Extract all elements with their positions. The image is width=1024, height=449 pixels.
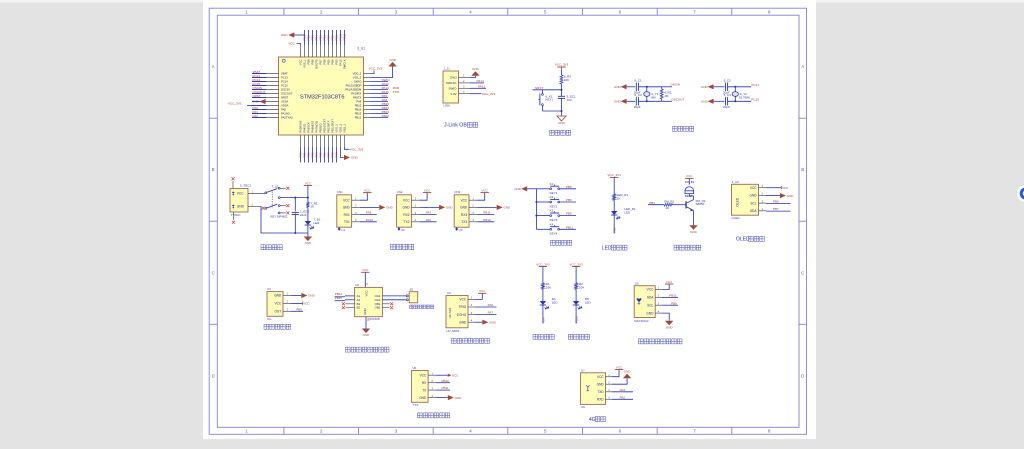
caption voice output module	[418, 413, 450, 418]
CN3 bottom label	[455, 227, 458, 231]
net label VCC of speed sensor	[291, 302, 303, 304]
capacitor C2 20pF	[725, 83, 727, 91]
ground symbol of 4G module (up arrow)	[612, 378, 627, 384]
svg-text:10K: 10K	[564, 78, 569, 82]
svg-text:LED: LED	[552, 301, 559, 305]
svg-text:4_U2: 4_U2	[732, 180, 740, 184]
node junction key rail row K2	[535, 201, 537, 203]
heart-rate pin stubs with numbers	[655, 290, 662, 314]
motor connector J2 contacts	[406, 295, 408, 297]
4G module U7 body	[581, 373, 606, 405]
capacitor C3 20pF	[635, 97, 637, 105]
svg-text:ECHO: ECHO	[457, 313, 467, 317]
switch S1 pole 1 lower throw contact	[278, 197, 280, 199]
U1 top wires rising to labels	[305, 30, 345, 45]
resistor R1 10K of lamp circuit	[541, 283, 544, 290]
node junction crystal Y2 top	[734, 86, 736, 88]
svg-text:KEY1: KEY1	[546, 98, 554, 102]
svg-text:GND: GND	[308, 294, 316, 298]
vertical rail of key circuit	[535, 189, 537, 230]
transistor Q1 S8050 NPN	[685, 201, 687, 208]
wire C1 to crystal node	[638, 86, 661, 88]
wire button K4 to net label	[560, 228, 576, 230]
svg-text:10K: 10K	[546, 286, 551, 290]
net label PB10 on voice RX wire	[436, 382, 450, 384]
wire GND of heart-rate module	[662, 313, 669, 321]
svg-text:VCC: VCC	[305, 181, 312, 185]
ground symbol of CN3	[477, 206, 497, 208]
svg-text:PA13: PA13	[478, 85, 485, 89]
svg-text:GND: GND	[597, 382, 605, 386]
svg-text:1M: 1M	[664, 94, 669, 98]
ground symbol of reset circuit (hollow)	[557, 116, 566, 121]
net label PA9 on CN1 RX wire	[360, 214, 377, 216]
LED D4 of lamp circuit	[540, 301, 546, 305]
net label PA13 on J1 SWIO wire	[470, 87, 486, 89]
net label VCC_3V3 on J1 3.3V wire	[470, 93, 482, 95]
svg-text:GND: GND	[252, 100, 260, 104]
svg-text:5_C4: 5_C4	[724, 93, 732, 97]
power port VCC of CN2	[420, 193, 428, 201]
net label PB11 on voice TX wire	[436, 389, 450, 391]
svg-text:20pF: 20pF	[634, 105, 641, 109]
wire GND to capacitor C1	[627, 86, 636, 88]
svg-text:GND: GND	[459, 320, 467, 324]
svg-text:VSS_1: VSS_1	[302, 59, 306, 68]
svg-text:4G: 4G	[589, 417, 596, 423]
svg-text:OLED: OLED	[732, 216, 741, 220]
motor driver OA1 wire to connector	[382, 295, 406, 297]
svg-text:GND: GND	[701, 85, 709, 89]
svg-text:VCC_3V3: VCC_3V3	[608, 173, 622, 177]
svg-text:SDA: SDA	[647, 296, 654, 300]
svg-text:PA2TXA0: PA2TXA0	[281, 116, 293, 120]
wire C3 to crystal node	[638, 100, 661, 102]
wire LED D5 down to net label	[575, 305, 577, 324]
svg-text:VCC: VCC	[420, 373, 427, 377]
svg-text:TX3: TX3	[461, 220, 467, 224]
svg-text:VCC: VCC	[303, 302, 310, 306]
no-connect crosses on OB1 OB2 pins	[382, 303, 389, 305]
node junction at NRST net	[561, 89, 563, 91]
svg-text:PA10RX: PA10RX	[351, 92, 361, 96]
LED D5 of lamp circuit	[573, 301, 579, 305]
net label PA10 on CN1 TX wire	[360, 221, 377, 223]
ground symbol of CN2	[420, 206, 440, 208]
ground symbol of buzzer circuit	[689, 225, 697, 230]
svg-text:PB11: PB11	[669, 294, 676, 298]
caption green lamp circuit	[533, 334, 554, 339]
wire PB1 to resistor FM_R1	[648, 204, 664, 206]
svg-text:GND: GND	[472, 67, 480, 71]
svg-text:CN3: CN3	[454, 190, 460, 194]
svg-text:HC-S04: HC-S04	[448, 307, 452, 318]
svg-text:GND: GND	[489, 320, 497, 324]
svg-text:VSSA: VSSA	[281, 100, 288, 104]
CN1 bottom label	[338, 227, 341, 231]
wire rail to button K1	[536, 188, 549, 190]
svg-text:VCC: VCC	[237, 192, 244, 196]
caption buzzer circuit	[674, 245, 701, 250]
svg-text:K3: K3	[550, 209, 554, 213]
wire R2 to LED D5	[575, 289, 577, 301]
switch S1 pole 2 arm	[267, 204, 278, 208]
svg-text:A: A	[801, 64, 804, 69]
wire VCC bar down the rail	[307, 186, 309, 202]
svg-text:PB0: PB0	[296, 307, 302, 311]
wire VCC to U2 motor driver	[364, 272, 366, 287]
svg-text:PB12: PB12	[382, 114, 390, 118]
column ticks and numbers (top and bottom rulers)	[284, 8, 732, 434]
svg-text:BEEP: BEEP	[685, 194, 693, 198]
svg-text:PA3RXA0: PA3RXA0	[298, 120, 302, 132]
wire motor driver GND down	[365, 317, 367, 329]
net label PA3 on 4G TXD wire	[612, 391, 633, 393]
svg-text:D: D	[212, 373, 215, 378]
svg-text:PB3: PB3	[613, 227, 617, 233]
svg-text:GND: GND	[701, 100, 709, 104]
ground symbol at U1 VSSA pin	[260, 99, 266, 104]
svg-text:GND: GND	[274, 294, 282, 298]
svg-text:GND: GND	[343, 206, 351, 210]
caption key circuit	[551, 240, 572, 245]
svg-text:VCC: VCC	[479, 289, 486, 293]
caption DC motor driver module	[346, 347, 390, 352]
push button K3 KEY3	[550, 215, 552, 217]
svg-text:CG: CG	[267, 317, 272, 321]
capacitor EC1 104	[558, 95, 565, 97]
ground symbol of heart-rate module	[665, 321, 673, 326]
svg-text:MX1508: MX1508	[369, 317, 381, 321]
svg-text:GND: GND	[363, 308, 367, 314]
svg-text:VCC: VCC	[616, 365, 623, 369]
svg-text:PB1SBTX: PB1SBTX	[326, 120, 330, 132]
ground symbol at J1 GND pin	[470, 76, 476, 78]
svg-text:VCC: VCC	[686, 174, 693, 178]
caption ultrasonic ranging module	[452, 338, 490, 343]
LED D1 power indicator	[305, 221, 311, 225]
power port VCC of 4G module	[612, 370, 619, 377]
switch S1 linkage dashed line	[271, 192, 273, 208]
svg-text:VCC: VCC	[647, 288, 654, 292]
power net label VCC_3V3 at U1 bottom VDD pin	[345, 147, 350, 149]
svg-text:VCC: VCC	[782, 186, 789, 190]
svg-text:GND: GND	[386, 206, 394, 210]
svg-text:GND: GND	[237, 205, 245, 209]
U1 left pin stubs	[252, 74, 279, 118]
svg-text:PB10SCKT: PB10SCKT	[322, 118, 326, 132]
svg-text:VCC: VCC	[597, 375, 604, 379]
wire button K3 to net label	[560, 215, 576, 217]
ground symbol of ultrasonic	[475, 321, 482, 323]
net label PB15 on motor A2 wire	[345, 299, 355, 301]
svg-text:VBAT: VBAT	[281, 72, 288, 76]
wire VCC_3V3 to resistor LED_R1	[613, 177, 615, 194]
CN2 pin stubs with numbers	[411, 200, 419, 222]
svg-text:VCC: VCC	[364, 188, 371, 192]
svg-text:U2: U2	[401, 228, 405, 232]
svg-text:VSS_2: VSS_2	[353, 76, 362, 80]
wire VCC_3V3 down to resistor R2	[575, 267, 577, 283]
svg-text:PB11: PB11	[566, 225, 573, 229]
ground symbol of voice module	[436, 397, 448, 399]
wire C2 to crystal Y2 node	[728, 86, 751, 88]
svg-text:CN1: CN1	[337, 190, 343, 194]
net label OSCOUT wire	[662, 100, 672, 102]
net label PA3 on CN2 RX wire	[420, 214, 437, 216]
svg-text:PB6: PB6	[322, 59, 326, 65]
svg-text:GND: GND	[419, 396, 427, 400]
wire NRST node down through capacitor EC1	[561, 90, 563, 96]
no-connect cross above TBC1	[232, 181, 234, 189]
node junction at VCC rail top	[307, 197, 309, 199]
svg-text:S8050: S8050	[696, 202, 705, 206]
svg-text:GND: GND	[281, 33, 289, 37]
svg-text:J-Link OB: J-Link OB	[444, 123, 467, 129]
push button K1 KEY1	[550, 188, 552, 190]
wire LED_R1 to LED_D1	[613, 200, 615, 211]
wire button K1 to bottom rail	[542, 106, 544, 112]
CN3 pin stubs with numbers	[469, 200, 477, 222]
svg-text:B2: B2	[357, 306, 361, 310]
svg-text:PA7: PA7	[488, 311, 494, 315]
svg-text:C: C	[212, 270, 215, 275]
svg-text:PA14: PA14	[477, 79, 484, 83]
svg-text:VCC_3V3: VCC_3V3	[536, 262, 550, 266]
resistor R2 1M across crystal	[661, 87, 663, 89]
crystal Y2 32.768K	[734, 87, 736, 102]
net label PA2 on CN2 TX wire	[420, 221, 437, 223]
node junction at capacitor EC3 branch	[294, 197, 296, 199]
svg-text:D: D	[801, 373, 804, 378]
U1 left wires under labels	[252, 74, 266, 118]
svg-text:VCC: VCC	[362, 268, 369, 272]
svg-text:PA3: PA3	[620, 388, 626, 392]
svg-text:PA3: PA3	[426, 211, 432, 215]
switch S1 pole 1 arm	[266, 189, 277, 193]
wire FM_R1 to Q1 base	[673, 204, 686, 206]
svg-text:VCC: VCC	[364, 290, 368, 296]
svg-text:PB1: PB1	[649, 201, 655, 205]
speed sensor pin stubs with numbers	[283, 296, 291, 312]
svg-text:SDA: SDA	[750, 209, 757, 213]
wire GND to capacitor C4	[714, 100, 725, 102]
svg-text:VCC_3V3: VCC_3V3	[369, 66, 383, 70]
svg-text:K2: K2	[550, 195, 554, 199]
U1 pin-1 indicator circle	[282, 59, 285, 62]
svg-text:22uF: 22uF	[300, 213, 307, 217]
ground symbol of CN1	[360, 206, 380, 208]
wire Q1 emitter to ground	[693, 211, 695, 226]
svg-text:5_TBC1: 5_TBC1	[240, 184, 251, 188]
power port VCC of CN1	[360, 193, 368, 201]
svg-text:VDD_1: VDD_1	[342, 123, 346, 132]
svg-text:U3: U3	[267, 287, 271, 291]
microcontroller U1 STM32F103C8T6 body	[279, 57, 364, 135]
svg-text:20pF: 20pF	[723, 105, 730, 109]
svg-text:GND: GND	[351, 156, 359, 160]
svg-text:NRST: NRST	[535, 86, 543, 90]
net label PA14 on J1 SWCLK wire	[470, 82, 484, 84]
svg-text:PB12: PB12	[575, 316, 579, 323]
svg-text:VCC: VCC	[343, 198, 350, 202]
svg-text:1K: 1K	[310, 205, 314, 209]
svg-text:VDDA: VDDA	[281, 104, 289, 108]
svg-text:PB12: PB12	[355, 116, 362, 120]
net label PA2 on 4G RXD wire	[612, 398, 633, 400]
svg-text:VCC: VCC	[424, 188, 431, 192]
svg-text:U4: U4	[447, 291, 451, 295]
CN2 bottom label	[398, 227, 401, 231]
net label VCC with arrow on voice pin 1	[436, 374, 448, 376]
svg-text:LED: LED	[602, 245, 612, 251]
svg-text:PC15: PC15	[281, 84, 288, 88]
svg-text:PA4SO: PA4SO	[302, 124, 306, 133]
ground symbol at U1 VSS_2 pin	[371, 67, 393, 78]
svg-text:VCC_3V3: VCC_3V3	[350, 147, 364, 151]
wire VCC to buzzer top	[688, 178, 690, 184]
resistor FM_R1 1K	[664, 203, 672, 206]
svg-text:SWIO: SWIO	[449, 86, 458, 90]
resistor R1 of power LED	[306, 202, 309, 208]
svg-text:GND: GND	[363, 333, 371, 337]
ultrasonic module U4 HC-SR04 body	[446, 296, 468, 328]
svg-text:GND: GND	[455, 396, 463, 400]
svg-text:104: 104	[567, 98, 572, 102]
net label PB14 on motor A1 wire	[345, 295, 355, 297]
resistor LED_R1 1K	[613, 194, 616, 200]
wire rail to button K2	[536, 201, 549, 203]
svg-text:GND: GND	[614, 100, 622, 104]
svg-text:A: A	[212, 64, 215, 69]
svg-text:PA8: PA8	[356, 100, 361, 104]
svg-text:MAX30102: MAX30102	[634, 319, 649, 323]
svg-text:PB6: PB6	[566, 198, 572, 202]
svg-text:VDD_2: VDD_2	[353, 72, 362, 76]
net label PA6 on TRIG wire	[475, 306, 497, 308]
LED_D1 indicator LED	[611, 211, 617, 215]
switch S1 pole 2 common contact with no-connect cross	[262, 207, 265, 210]
svg-text:PA2: PA2	[620, 395, 626, 399]
svg-text:GND: GND	[389, 58, 397, 62]
caption speed sensor	[264, 324, 291, 329]
node junction crystal Y1 top	[646, 86, 648, 88]
svg-text:PA9: PA9	[366, 211, 372, 215]
svg-text:TYPEC: TYPEC	[231, 213, 242, 217]
svg-text:U6: U6	[412, 366, 416, 370]
ground symbol of speed sensor	[291, 295, 301, 297]
motor driver OA2 wire to connector	[382, 299, 406, 301]
svg-text:GND: GND	[666, 325, 674, 329]
svg-text:GND: GND	[460, 206, 468, 210]
svg-text:10K: 10K	[579, 286, 584, 290]
caption crystal circuit	[673, 126, 694, 131]
svg-text:GND: GND	[750, 194, 758, 198]
svg-text:PB4: PB4	[330, 59, 334, 65]
power port VCC_3V3 of reset circuit	[557, 66, 565, 68]
svg-text:LED: LED	[313, 221, 320, 225]
bottom wire of reset circuit	[543, 110, 562, 112]
svg-text:PB7: PB7	[318, 59, 322, 65]
wire button K1 to net label	[560, 188, 576, 190]
svg-text:GND: GND	[690, 230, 698, 234]
floating circular button at right edge	[1016, 184, 1024, 202]
switch S1 pole 2 lower throw contact with cross	[278, 212, 280, 214]
svg-text:PA15: PA15	[338, 59, 342, 66]
svg-text:GND: GND	[614, 85, 622, 89]
net label PB11 on CN3 RX wire	[477, 214, 494, 216]
wire rail to button K4	[536, 228, 549, 230]
svg-text:GND: GND	[450, 76, 458, 80]
svg-text:PB11: PB11	[483, 211, 490, 215]
svg-text:U7: U7	[581, 369, 585, 373]
push button K1 KEY1 (vertical)	[542, 94, 544, 96]
svg-text:FM_B1: FM_B1	[685, 180, 695, 184]
connector CN1 body	[337, 195, 352, 227]
svg-text:SWCLK: SWCLK	[342, 59, 346, 69]
svg-text:VCC: VCC	[482, 188, 489, 192]
svg-text:NRST: NRST	[281, 96, 289, 100]
svg-text:PB7: PB7	[773, 207, 779, 211]
wire to ground of reset circuit	[561, 111, 563, 116]
capacitor C4 20pF	[725, 97, 727, 105]
ground symbol of motor driver	[362, 329, 370, 334]
wire button K2 to net label	[560, 201, 576, 203]
U1 right pin stubs	[364, 74, 371, 118]
svg-text:PB14: PB14	[355, 108, 362, 112]
svg-text:6_C3: 6_C3	[635, 93, 643, 97]
svg-text:OLED: OLED	[736, 197, 740, 206]
connector CN2 body	[397, 195, 412, 227]
OLED pin stubs with numbers	[759, 188, 767, 211]
TBC1 VCC pin stub	[248, 193, 265, 195]
motor driver U2 MX1508 body	[355, 287, 383, 316]
svg-text:U1: U1	[341, 228, 345, 232]
wire R1 to LED D1	[307, 208, 309, 222]
wire R3 to NRST node	[561, 84, 563, 90]
net label PB11 on SDA wire	[662, 296, 678, 298]
svg-text:FM_R1: FM_R1	[664, 200, 674, 204]
svg-text:B: B	[212, 167, 215, 172]
wire LED D4 down to net label	[542, 305, 544, 324]
svg-text:PA7MOSI: PA7MOSI	[314, 121, 318, 133]
svg-text:PA5SCK: PA5SCK	[306, 122, 310, 133]
svg-text:VCC: VCC	[298, 59, 302, 65]
CN1 pin stubs with numbers	[352, 200, 360, 222]
capacitor EC3 22uF plates	[292, 211, 299, 213]
svg-text:TX1: TX1	[344, 220, 350, 224]
voice pin stubs with numbers	[428, 375, 436, 397]
svg-text:LINK: LINK	[444, 104, 451, 108]
svg-text:PB5: PB5	[566, 185, 572, 189]
svg-text:PB15: PB15	[355, 104, 362, 108]
svg-text:B1: B1	[410, 288, 414, 292]
svg-text:PA6: PA6	[488, 303, 494, 307]
svg-text:4G: 4G	[581, 405, 586, 409]
wire LED_D1 down to net label	[613, 215, 615, 234]
svg-text:OSCIN: OSCIN	[670, 83, 680, 87]
push button K4 KEY4	[550, 228, 552, 230]
node junction key rail row K3	[535, 215, 537, 217]
svg-text:PC15: PC15	[751, 97, 759, 101]
svg-text:VCC: VCC	[274, 302, 281, 306]
svg-text:PA9TX: PA9TX	[353, 96, 362, 100]
wire GND to capacitor C3	[627, 100, 636, 102]
svg-text:5_C2: 5_C2	[724, 78, 732, 82]
J1 pin stubs with numbers	[459, 78, 471, 94]
svg-text:TTS: TTS	[413, 403, 419, 407]
svg-text:PB9: PB9	[306, 59, 310, 65]
